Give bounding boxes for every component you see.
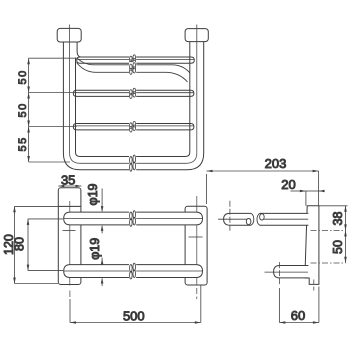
top bar inner line xyxy=(78,58,195,60)
front view left mounting cap xyxy=(57,28,81,42)
break symbol on plan bar A xyxy=(129,210,136,228)
side lower bar center line xyxy=(265,271,309,273)
side lower bar xyxy=(274,266,309,278)
svg-text:500: 500 xyxy=(123,309,145,324)
side lower bar end center line xyxy=(278,262,280,285)
svg-text:50: 50 xyxy=(17,69,29,84)
38 / 50 dimension chain xyxy=(319,206,348,263)
svg-text:38: 38 xyxy=(331,212,345,226)
svg-text:80: 80 xyxy=(13,237,27,251)
20 dimension xyxy=(291,191,325,206)
side plate hole center line upper xyxy=(311,229,346,231)
plan left plate xyxy=(58,188,81,285)
phi19 mid arrows xyxy=(101,225,104,231)
plan left plate center dash xyxy=(63,230,76,232)
plan right plate center dash xyxy=(189,236,203,238)
bar 2 inner line xyxy=(75,92,194,94)
120 dimension xyxy=(15,206,81,283)
break symbol on bottom bar xyxy=(129,154,136,173)
extension line y162 xyxy=(29,161,70,163)
break symbol on tube 2 xyxy=(129,62,136,75)
frame outer edge xyxy=(63,42,203,170)
extension line y92.5 xyxy=(29,92,77,94)
svg-text:φ19: φ19 xyxy=(88,238,102,260)
break symbol on bar 1 xyxy=(129,54,136,65)
front view right mounting cap xyxy=(185,29,208,42)
plan left center line xyxy=(69,201,71,286)
bar 2 xyxy=(73,90,194,96)
203 dimension xyxy=(207,171,319,206)
side plate hole center line lower xyxy=(311,262,346,264)
left dimension chain line xyxy=(29,58,77,162)
side upper bar xyxy=(224,213,309,225)
svg-text:50: 50 xyxy=(17,102,29,117)
shelf rear tube (tube 2) top line xyxy=(78,59,190,73)
svg-text:φ19: φ19 xyxy=(86,183,100,205)
break symbol on bar 3 xyxy=(129,121,136,133)
shelf rear tube bottom line xyxy=(77,63,188,83)
svg-text:60: 60 xyxy=(291,308,305,323)
plan bar B center line xyxy=(64,270,203,272)
break symbol on side upper bar xyxy=(246,211,264,228)
side upper bar end center line xyxy=(229,201,231,231)
extension line y58 xyxy=(29,57,77,59)
plan right center line xyxy=(196,196,198,285)
phi19 bottom arrow xyxy=(101,278,104,284)
plan bar A center line xyxy=(64,217,203,219)
60 dimension xyxy=(279,287,319,323)
plan right plate xyxy=(185,206,207,285)
frame center line xyxy=(70,25,197,164)
plan left plate top section line xyxy=(58,205,81,207)
500 dimension xyxy=(70,285,201,323)
svg-text:20: 20 xyxy=(281,177,295,192)
frame inner edge xyxy=(76,42,190,157)
top bar (bar 1) xyxy=(77,57,195,63)
35 dimension xyxy=(58,185,81,187)
svg-text:50: 50 xyxy=(331,240,345,254)
phi19 upper dimension arrow xyxy=(101,189,103,212)
break symbol on bar 2 xyxy=(129,88,136,99)
80 dimension xyxy=(28,219,63,271)
side upper bar center line xyxy=(218,218,308,220)
bar 3 xyxy=(73,124,194,130)
svg-text:35: 35 xyxy=(61,173,75,188)
svg-text:203: 203 xyxy=(265,156,287,171)
plan bar A xyxy=(64,212,203,225)
dimension arrows left chain xyxy=(27,58,30,162)
bar 3 inner line xyxy=(75,125,194,127)
break symbol on plan bar B xyxy=(129,262,136,280)
svg-text:55: 55 xyxy=(17,136,29,151)
frame inner edge xyxy=(77,42,80,57)
plan bar B xyxy=(64,265,203,278)
side wall plate xyxy=(305,206,319,285)
side plate foot center line xyxy=(313,280,315,291)
extension line y126.5 xyxy=(29,126,77,128)
